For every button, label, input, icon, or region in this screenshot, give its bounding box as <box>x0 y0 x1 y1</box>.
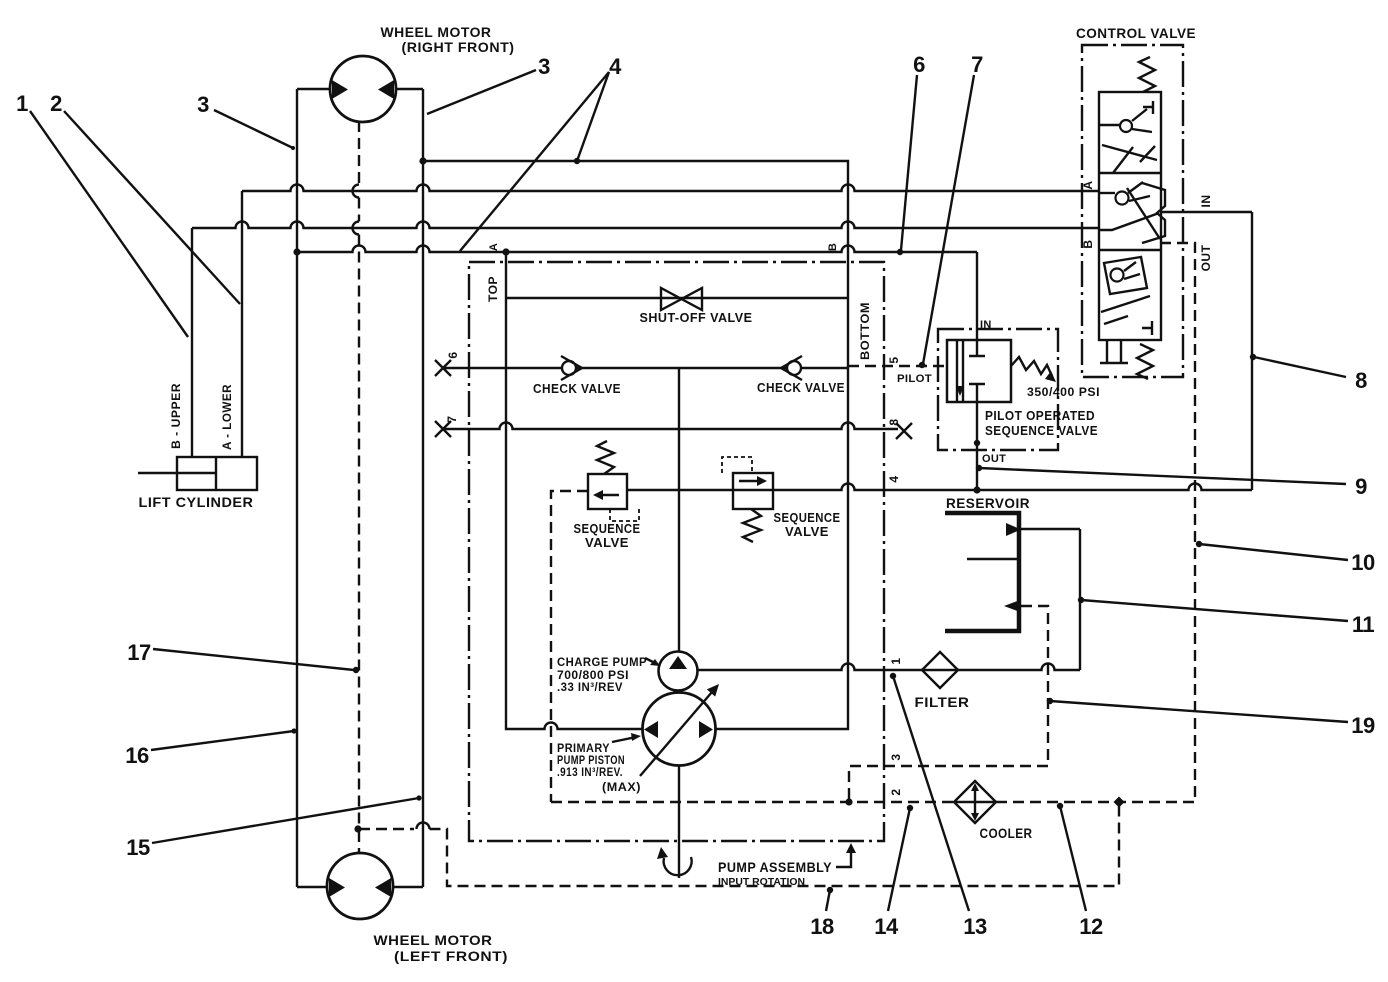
svg-text:CHECK VALVE: CHECK VALVE <box>533 381 621 396</box>
svg-text:SEQUENCE VALVE: SEQUENCE VALVE <box>985 423 1098 438</box>
svg-text:CHECK VALVE: CHECK VALVE <box>757 380 845 395</box>
svg-text:6: 6 <box>446 351 460 358</box>
svg-text:10: 10 <box>1351 550 1375 575</box>
svg-text:OUT: OUT <box>1199 244 1213 271</box>
svg-text:IN: IN <box>1199 195 1213 208</box>
svg-text:13: 13 <box>963 914 987 939</box>
svg-text:TOP: TOP <box>486 276 500 302</box>
svg-text:A: A <box>488 243 500 251</box>
svg-text:RESERVOIR: RESERVOIR <box>946 495 1030 511</box>
svg-text:12: 12 <box>1079 914 1103 939</box>
svg-text:PUMP ASSEMBLY: PUMP ASSEMBLY <box>718 859 832 875</box>
svg-text:A - LOWER: A - LOWER <box>220 384 234 450</box>
svg-text:19: 19 <box>1351 713 1375 738</box>
svg-text:17: 17 <box>127 640 151 665</box>
svg-text:VALVE: VALVE <box>785 524 829 539</box>
svg-text:LIFT CYLINDER: LIFT CYLINDER <box>139 494 254 510</box>
svg-text:INPUT ROTATION: INPUT ROTATION <box>718 877 805 888</box>
svg-text:.913 IN³/REV.: .913 IN³/REV. <box>557 765 623 779</box>
svg-text:PILOT OPERATED: PILOT OPERATED <box>985 408 1095 423</box>
svg-text:350/400 PSI: 350/400 PSI <box>1027 385 1100 399</box>
svg-text:PILOT: PILOT <box>897 373 932 385</box>
svg-text:8: 8 <box>887 418 901 425</box>
svg-text:14: 14 <box>874 914 899 939</box>
svg-text:4: 4 <box>609 54 622 79</box>
svg-text:18: 18 <box>810 914 834 939</box>
svg-text:(LEFT FRONT): (LEFT FRONT) <box>394 948 508 964</box>
svg-text:7: 7 <box>445 415 459 422</box>
svg-text:COOLER: COOLER <box>980 825 1033 841</box>
svg-text:(MAX): (MAX) <box>602 780 641 794</box>
svg-text:IN: IN <box>980 319 992 331</box>
svg-text:B: B <box>1081 239 1095 248</box>
svg-text:WHEEL MOTOR: WHEEL MOTOR <box>381 24 492 40</box>
svg-text:CONTROL VALVE: CONTROL VALVE <box>1076 25 1196 41</box>
svg-text:9: 9 <box>1355 474 1367 499</box>
svg-text:VALVE: VALVE <box>585 535 629 550</box>
svg-text:FILTER: FILTER <box>915 694 970 710</box>
svg-text:7: 7 <box>971 52 983 77</box>
svg-text:4: 4 <box>887 475 901 482</box>
svg-text:.33 IN³/REV: .33 IN³/REV <box>557 680 623 694</box>
svg-text:(RIGHT FRONT): (RIGHT FRONT) <box>402 39 515 55</box>
svg-text:16: 16 <box>125 743 149 768</box>
svg-text:BOTTOM: BOTTOM <box>858 302 872 360</box>
svg-text:OUT: OUT <box>982 453 1006 465</box>
svg-text:8: 8 <box>1355 368 1367 393</box>
svg-text:3: 3 <box>889 753 903 760</box>
svg-text:6: 6 <box>913 52 925 77</box>
svg-text:SEQUENCE: SEQUENCE <box>774 510 841 525</box>
svg-text:SHUT-OFF VALVE: SHUT-OFF VALVE <box>640 310 753 325</box>
svg-text:2: 2 <box>889 788 903 795</box>
svg-text:15: 15 <box>126 835 150 860</box>
svg-text:CHARGE PUMP: CHARGE PUMP <box>557 655 647 669</box>
svg-text:2: 2 <box>50 91 62 116</box>
svg-text:1: 1 <box>16 91 28 116</box>
svg-text:B - UPPER: B - UPPER <box>169 383 183 449</box>
svg-text:WHEEL MOTOR: WHEEL MOTOR <box>374 932 493 948</box>
svg-text:11: 11 <box>1352 612 1375 637</box>
svg-text:A: A <box>1081 180 1095 189</box>
svg-text:3: 3 <box>197 92 209 117</box>
svg-text:3: 3 <box>538 54 550 79</box>
svg-text:1: 1 <box>889 657 903 664</box>
svg-text:B: B <box>827 243 839 251</box>
svg-text:SEQUENCE: SEQUENCE <box>574 521 641 536</box>
svg-text:5: 5 <box>887 356 901 363</box>
